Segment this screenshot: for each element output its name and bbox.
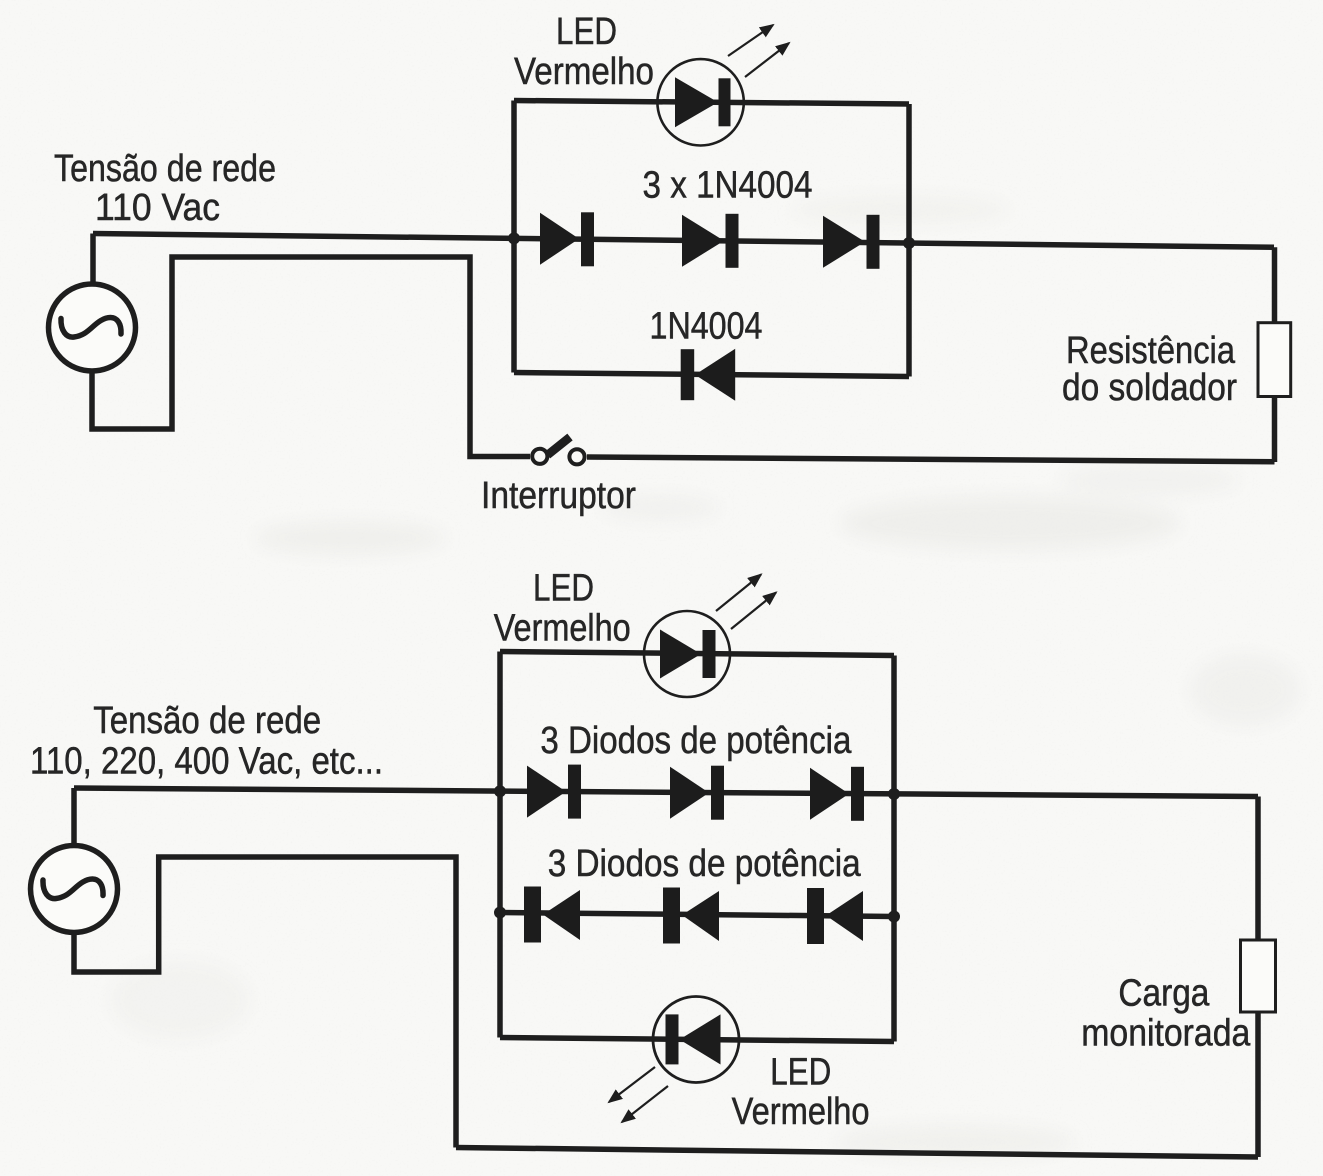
wire: circuit1 right vertical below resistor xyxy=(1272,396,1278,462)
wire: circuit1 main horizontal (mid branch) xyxy=(93,234,1274,248)
resistor R2 (Carga monitorada) xyxy=(1241,940,1276,1012)
svg-text:LED: LED xyxy=(533,567,594,609)
diode D3 (1N4004) xyxy=(823,215,880,269)
led LED1 xyxy=(657,25,789,146)
diode D2 (1N4004) xyxy=(682,214,739,268)
node C junction circuit2 left mid xyxy=(494,785,506,797)
resistor R1 (Resistencia do soldador) xyxy=(1258,323,1291,397)
svg-text:3 x 1N4004: 3 x 1N4004 xyxy=(643,165,813,207)
ac source G1 xyxy=(49,284,136,371)
diode D6 (potencia) xyxy=(670,766,724,820)
ac source G2 xyxy=(31,846,118,933)
svg-text:3 Diodos de potência: 3 Diodos de potência xyxy=(540,720,852,762)
svg-text:Vermelho: Vermelho xyxy=(514,51,654,93)
node E junction circuit2 left lower xyxy=(494,907,506,919)
wire: circuit2 box left vertical xyxy=(497,652,503,1038)
node F junction circuit2 right lower xyxy=(888,911,900,923)
wire: circuit2 lower diode branch xyxy=(500,913,894,917)
diode D10 (potencia reverse) xyxy=(807,888,863,944)
svg-text:1N4004: 1N4004 xyxy=(650,306,763,348)
svg-text:Vermelho: Vermelho xyxy=(494,608,631,650)
switch S1 (Interruptor) xyxy=(532,437,584,464)
diode D7 (potencia) xyxy=(810,767,864,821)
diode D4 (1N4004 reverse) xyxy=(681,349,736,401)
svg-text:3 Diodos de potência: 3 Diodos de potência xyxy=(548,843,862,885)
led LED2 xyxy=(644,575,776,698)
wire: circuit2 source bottom run xyxy=(74,857,456,1148)
wire: circuit2 LED branch top xyxy=(500,652,894,656)
led LED3 xyxy=(609,997,739,1123)
node B junction circuit1 right xyxy=(903,237,915,249)
diode D9 (potencia reverse) xyxy=(663,888,719,944)
wire: circuit2 source top drop xyxy=(71,788,77,846)
node A junction circuit1 left xyxy=(508,232,520,244)
wire: circuit2 box right vertical xyxy=(891,656,897,1042)
svg-text:LED: LED xyxy=(556,11,617,53)
svg-text:Interruptor: Interruptor xyxy=(481,475,636,517)
svg-text:Vermelho: Vermelho xyxy=(732,1091,870,1133)
diode D5 (potencia) xyxy=(527,765,581,819)
svg-text:Tensão de rede: Tensão de rede xyxy=(54,148,276,190)
wire: circuit2 right vertical above resistor xyxy=(1255,797,1261,942)
node D junction circuit2 right mid xyxy=(888,788,900,800)
wire: circuit1 box left vertical xyxy=(511,101,517,373)
svg-text:Resistência: Resistência xyxy=(1066,330,1236,372)
wire: circuit2 main horizontal xyxy=(74,788,1258,797)
wire: circuit1 LED branch top xyxy=(514,101,909,105)
diode D8 (potencia reverse) xyxy=(524,887,580,943)
svg-text:LED: LED xyxy=(770,1052,831,1094)
wire: circuit1 1N4004 branch bottom xyxy=(514,373,909,377)
diode D1 (1N4004) xyxy=(540,212,594,266)
wire: circuit1 right vertical above resistor xyxy=(1272,247,1278,324)
wire: circuit2 bottom LED branch xyxy=(500,1038,894,1042)
svg-text:110, 220, 400 Vac, etc...: 110, 220, 400 Vac, etc... xyxy=(30,741,383,783)
wire: circuit1 box right vertical xyxy=(906,104,912,377)
svg-text:monitorada: monitorada xyxy=(1081,1013,1251,1055)
wire: circuit1 switch to resistor bottom xyxy=(587,457,1275,462)
wire: circuit2 bottom long wire xyxy=(456,1148,1258,1158)
svg-text:Tensão de rede: Tensão de rede xyxy=(93,700,321,742)
svg-text:Carga: Carga xyxy=(1118,973,1210,1015)
svg-text:do soldador: do soldador xyxy=(1062,367,1237,409)
wire: circuit1 source bottom run to switch xyxy=(92,257,530,457)
wire: circuit2 right vertical below resistor xyxy=(1255,1011,1261,1157)
svg-text:110 Vac: 110 Vac xyxy=(95,187,220,229)
wire: circuit1 source top drop xyxy=(90,234,96,287)
